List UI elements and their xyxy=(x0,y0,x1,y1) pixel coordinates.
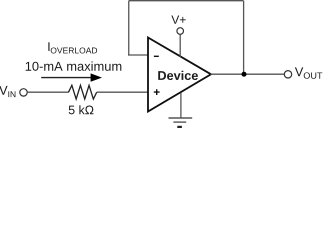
wire: feedback left vertical xyxy=(128,1,130,56)
op-amp U1 xyxy=(148,38,211,112)
op-amp U1 plus pin mark xyxy=(154,89,160,95)
label 10-mA maximum xyxy=(26,61,122,70)
wire: VIN to R1 xyxy=(27,91,68,93)
label Device xyxy=(158,71,198,80)
resistor R1 xyxy=(69,85,97,99)
label R1 value 5 kOhm xyxy=(69,105,94,114)
label VIN xyxy=(0,86,8,95)
label VOUT xyxy=(295,67,303,76)
label V+ xyxy=(171,16,185,24)
wire: feedback top xyxy=(129,0,244,2)
wire: output xyxy=(211,73,285,75)
op-amp U1 minus pin mark xyxy=(154,55,159,57)
junction node xyxy=(242,72,247,77)
terminal V+ xyxy=(177,28,184,35)
wire: feedback to inverting input xyxy=(128,54,148,56)
terminal VIN xyxy=(20,89,27,96)
wire: feedback right vertical xyxy=(243,1,245,75)
wire: ground stub xyxy=(180,93,182,118)
label IOVERLOAD xyxy=(48,42,49,51)
terminal VOUT xyxy=(284,71,291,78)
wire: R1 to non-inverting input xyxy=(97,91,149,93)
current arrow IOVERLOAD xyxy=(41,73,102,81)
wire: V+ stub xyxy=(179,34,181,57)
ground xyxy=(169,118,193,127)
